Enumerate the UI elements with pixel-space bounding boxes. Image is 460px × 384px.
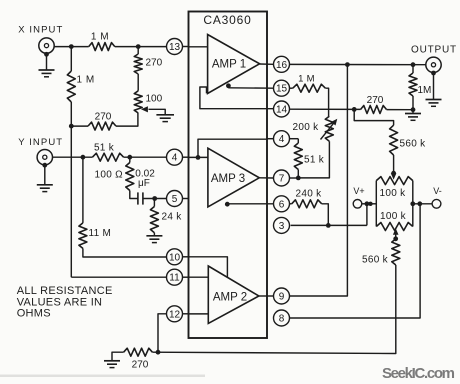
wire 24k to ground [153,233,155,236]
svg-text:6: 6 [279,199,285,210]
svg-text:4: 4 [279,134,285,145]
svg-text:51 k: 51 k [304,155,325,166]
capacitor C1 0.02uF [137,192,139,204]
svg-text:270: 270 [367,95,384,106]
svg-text:270: 270 [95,112,112,123]
svg-text:OUTPUT: OUTPUT [411,45,457,56]
wire bottom long to 560k [152,265,395,354]
svg-text:VALUES ARE IN: VALUES ARE IN [17,296,103,308]
node V+ second dot [368,202,372,206]
ground X input [39,69,55,71]
wire X terminal to ground [46,53,48,69]
wire node to 24k [153,199,155,207]
wire pin15 to 1M [290,87,293,89]
svg-text:200 k: 200 k [293,122,320,133]
pot 200k adjust arrow [321,122,336,140]
node Y terminal ground dot [42,163,47,168]
svg-text:270: 270 [132,360,149,371]
wire node to ground [412,110,414,113]
node V+/pin3 junction [365,201,370,206]
terminal J1 X input [39,38,54,53]
wire X input to 1M [54,46,88,48]
wire pin12 to box [183,313,189,315]
pin 9 [274,288,290,304]
svg-text:1M: 1M [418,85,432,96]
svg-text:270: 270 [146,58,163,69]
pin 16 [274,56,290,72]
wire pin11 to box [183,276,189,278]
wire pin12 to bottom node [158,314,166,352]
node 24k junction [152,196,157,201]
resistor R12 270 right [361,106,387,114]
wire Y terminal to ground [44,164,46,184]
pin 12 [167,306,183,322]
svg-text:AMP 2: AMP 2 [213,292,247,304]
potentiometer R5 100 [134,91,142,113]
wire 1M vertical to lower node [70,102,72,126]
svg-text:12: 12 [169,309,181,320]
svg-text:24 k: 24 k [162,212,183,223]
wire AMP3 tap to pin 6 [227,203,273,205]
wire pin13 to box [183,46,189,48]
wire pin9 to output column [290,65,348,296]
wire 270 to ground node [387,109,414,111]
node 270/560k junction [352,107,357,112]
op-amp AMP 1 [208,35,260,94]
node V-/pin8 junction [417,201,422,206]
svg-text:560 k: 560 k [362,255,389,266]
svg-text:100 k: 100 k [380,211,407,222]
node output/1M junction [411,62,416,67]
wire AMP1 tap to pin 15 [228,87,273,89]
wire ground to 270 [112,352,124,361]
node X terminal ground dot [44,52,49,57]
svg-text:10: 10 [169,252,181,263]
resistor R18 100k upper [376,177,413,185]
svg-text:15: 15 [276,84,288,95]
wire pin11 to AMP2 + input [189,276,209,278]
svg-text:μF: μF [138,178,150,189]
wire 1M to ground node [412,96,414,110]
wire pin10 to AMP2 top edge [189,257,228,278]
pin 7 [274,170,290,186]
svg-text:51 k: 51 k [94,143,115,154]
resistor R19 100k lower [376,223,413,231]
ground bottom-left [104,360,120,362]
wire to pin 11 [71,276,166,278]
wire pin4 to AMP3 + input [189,156,208,158]
node 100ohm junction [127,155,132,160]
wire 1M to pin 13 [115,46,167,48]
pin 14 [274,101,290,117]
svg-text:1 M: 1 M [91,32,109,43]
terminal J3 output [426,57,441,72]
wire 240k to pin3 row [322,204,329,226]
resistor R13 560k upper [390,125,398,155]
wire node to 270 lower resistor [71,125,88,127]
resistor R8 24k [150,207,158,233]
100k pot loop right side [412,181,414,227]
svg-text:13: 13 [169,42,181,53]
op-amp IC U1 CA3060 package outline [189,12,268,339]
svg-text:240 k: 240 k [296,189,323,200]
pin 8 [274,310,290,326]
resistor R9 11M [79,223,87,249]
node 1M/270 junction [69,124,74,129]
resistor R6 51k [92,153,123,161]
svg-text:11: 11 [169,273,180,284]
svg-text:V+: V+ [353,186,364,196]
potentiometer R15 200k [325,116,333,141]
wire X node down to 1M vertical [70,47,72,71]
wire pin13 node down [137,47,139,54]
svg-text:4: 4 [172,153,178,164]
100k pot loop left side [375,181,377,227]
node 240k/pin3 junction [326,223,331,228]
node pin13 column junction [136,44,141,49]
node Y input junction [81,155,86,160]
wire 560k to pot wiper [393,155,395,173]
node 100k top wiper [391,171,396,176]
svg-text:AMP 1: AMP 1 [212,59,246,71]
resistor R17 240k [292,200,322,208]
op-amp AMP 3 [208,148,259,207]
node AMP3 input junction [196,155,201,160]
wire 51k to junction [297,170,299,178]
node bottom junction [156,350,161,355]
resistor R20 560k lower [392,239,400,265]
resistor R11 1M output [412,65,414,73]
node AMP1 feedback tap [226,83,231,88]
pot wiper arrow lower 100k [393,228,399,234]
node 51k/pin7 junction [296,176,301,181]
svg-text:5: 5 [172,194,178,205]
pin 10 [167,249,183,265]
wire AMP1 output to pin 16 [260,63,274,65]
wire wiper to ground [149,109,166,114]
svg-text:CA3060: CA3060 [203,13,251,27]
pin 4 (left) [167,149,183,165]
wire output terminal to ground [433,73,435,100]
svg-text:100 k: 100 k [380,188,407,199]
wire V+ to 100k bracket [362,203,377,205]
svg-text:560 k: 560 k [400,139,427,150]
pin 11 [167,269,183,285]
svg-text:SeekIC.com: SeekIC.com [382,365,455,382]
wire AMP3 input up to pin 4 right [198,139,267,157]
svg-text:7: 7 [279,174,285,185]
node V-/bracket junction [410,201,415,206]
resistor R2 1M vertical [67,71,75,102]
terminal V- [432,199,441,208]
resistor R14 1M pin15 [293,84,326,92]
node output/pin9 junction [345,62,350,67]
wire junction to pin 7 [290,177,299,179]
wire 100 ohm to capacitor [130,191,138,199]
wire 100k bracket to V- [413,203,432,205]
svg-text:100: 100 [146,94,163,105]
resistor R16 51k right [294,143,302,170]
wire AMP2 output to pin 9 [259,295,273,297]
pin 4 (right) [274,131,290,147]
pot wiper arrow top 100k [391,173,397,179]
node X input junction [69,44,74,49]
wire 11M to pin 10 [83,248,166,257]
terminal J2 Y input [37,150,52,165]
wire pin8 to V- column [290,204,420,318]
svg-text:8: 8 [279,314,285,325]
svg-text:OHMS: OHMS [17,308,51,320]
wire 270 to 100 pot [137,74,139,91]
wire pin14 to 270 [290,108,361,110]
node AMP3 lower tap [225,202,230,207]
pin 13 [167,39,183,55]
wire pin3 to V+ column [291,224,367,226]
svg-text:100 Ω: 100 Ω [95,170,124,181]
pin 5 [167,191,183,207]
resistor R7 100 ohm [126,163,134,191]
wire node down to pin 11 row (long) [70,126,72,277]
wire pin3 row up to V+ [366,204,368,226]
wire pin12 to AMP2 lower input [189,313,209,315]
svg-text:11 M: 11 M [89,228,112,239]
wire pin5 to box [183,198,189,200]
resistor R1 1M horizontal [89,43,115,51]
wire 200k to pin7 row [298,141,329,178]
wire AMP3 output to pin 7 [259,177,273,179]
scan artifact band [0,375,205,378]
svg-text:16: 16 [276,60,288,71]
resistor R3 270 lower-left [88,122,116,130]
op-amp AMP 2 [208,266,259,323]
wire 270 to pot column [116,113,138,126]
ground 100 pot wiper [156,114,174,116]
terminal V+ [353,200,362,209]
wire pin10 to box [183,256,189,258]
wire pin14 wrap to AMP1 - input [200,87,273,109]
wire pin6 to 240k [290,203,292,205]
resistor R4 270 vertical [134,54,142,74]
node 1M/270/ground junction [411,107,416,112]
svg-text:X INPUT: X INPUT [18,25,63,36]
node 100k lower wiper [393,236,398,241]
ground output [426,99,442,101]
wire pin4L to box [183,156,189,158]
pot 100 wiper arrow [141,106,148,112]
svg-text:1 M: 1 M [77,75,95,86]
ground Y input [37,184,53,186]
wire Y input to 51k [53,156,93,158]
node output ground dot [431,71,436,76]
pin 15 [274,80,290,96]
svg-text:3: 3 [279,221,285,232]
wire box to pin 4 right [267,138,273,140]
wire 270 node to 560k top [354,109,393,125]
pin 3 [274,217,290,233]
svg-text:9: 9 [279,292,285,303]
wire pin13 to AMP1 + input [189,46,208,48]
resistor R10 270 bottom [124,348,153,356]
svg-text:ALL RESISTANCE: ALL RESISTANCE [17,285,113,297]
svg-text:V-: V- [433,186,442,196]
wire Y node down to 11M [82,157,84,223]
wire 1M to 200k pot [325,88,328,116]
svg-text:AMP 3: AMP 3 [211,173,245,185]
pin 6 [274,196,290,212]
ground 24k [146,235,162,237]
wire pin16 to output terminal [290,63,426,65]
ground 1M/270 node [405,113,421,115]
svg-text:14: 14 [276,105,288,116]
wire capacitor to pin 5 [143,198,166,200]
svg-text:Y INPUT: Y INPUT [18,137,63,148]
wire 51k to pin 4 [124,156,167,158]
svg-text:1 M: 1 M [298,74,315,85]
wire Y node down to 100 ohm [129,157,131,162]
wire pin4R to 51k [290,138,299,140]
